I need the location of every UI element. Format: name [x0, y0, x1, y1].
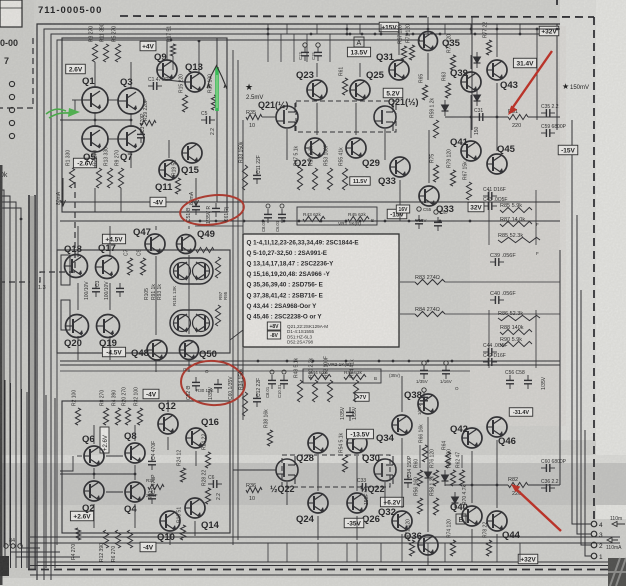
capacitor C35 2.2	[541, 109, 555, 117]
transistor Q31	[389, 60, 409, 80]
wire	[401, 376, 403, 412]
wire	[316, 63, 318, 77]
resistor R57 120	[401, 46, 406, 60]
voltage label +4.5V	[102, 234, 125, 244]
wire	[94, 188, 96, 212]
resistor	[115, 530, 120, 548]
junction	[215, 220, 218, 223]
capacitor C12 22F	[253, 393, 261, 407]
resistor R11 390	[103, 44, 108, 62]
wire	[401, 543, 403, 562]
resistor R74 120	[450, 540, 455, 556]
resistor R85 52.3k	[498, 237, 540, 242]
wire	[30, 536, 620, 538]
JFET Q21(½)	[276, 103, 298, 131]
page border dashed top	[120, 16, 594, 17]
capacitor	[434, 217, 442, 231]
wire	[356, 456, 358, 491]
terminal circle	[9, 120, 14, 125]
junction	[470, 28, 473, 31]
resistor R71 120	[409, 45, 414, 60]
resistor R28 22	[205, 488, 210, 504]
wire	[109, 283, 111, 310]
capacitor	[280, 375, 288, 389]
diode	[474, 90, 481, 106]
diode	[425, 467, 432, 483]
resistor R19 51	[175, 178, 180, 194]
wire	[535, 310, 537, 368]
wire	[401, 438, 403, 508]
junction	[130, 119, 133, 122]
voltage label 16V	[396, 205, 409, 213]
wire	[168, 140, 170, 158]
voltage label 13.5V	[347, 47, 370, 57]
terminal circle	[9, 107, 14, 112]
capacitor	[420, 392, 428, 406]
resistor R79 120	[450, 170, 455, 186]
junction	[345, 360, 348, 363]
capacitor C41 D16F	[483, 192, 497, 200]
resistor R7 270	[96, 168, 101, 188]
wire	[93, 504, 95, 528]
capacitor	[301, 47, 309, 61]
resistor	[103, 530, 108, 548]
wire	[359, 24, 361, 34]
junction	[312, 360, 315, 363]
page border dashed right	[593, 17, 595, 519]
wire	[471, 543, 473, 562]
wire	[22, 547, 41, 549]
wire	[528, 484, 560, 486]
capacitor C5	[201, 116, 215, 124]
wire	[37, 561, 626, 563]
transistor Q50	[180, 341, 199, 360]
corner connector block dark	[608, 558, 626, 586]
junction	[519, 33, 522, 36]
resistor R46 63k	[344, 374, 366, 379]
wire	[286, 24, 288, 34]
transistor Q44	[487, 511, 507, 531]
resistor R50 2.2k	[312, 380, 317, 402]
wire	[166, 40, 168, 60]
junction	[374, 33, 377, 36]
wire	[401, 534, 403, 543]
wire	[93, 425, 95, 444]
wire	[232, 50, 234, 545]
wire	[496, 543, 498, 562]
voltage label -4V	[143, 389, 159, 399]
resistor R82	[508, 482, 528, 487]
wire	[198, 41, 200, 72]
resistor R73 120	[450, 55, 455, 70]
capacitor C40 .056F	[490, 296, 504, 304]
voltage label +8V	[267, 322, 280, 330]
resistor R66 16k	[422, 445, 427, 462]
green arrow vertical	[215, 67, 219, 111]
capacitor	[116, 283, 124, 297]
wire	[94, 112, 96, 127]
wire	[77, 336, 79, 360]
resistor R35	[246, 114, 262, 119]
wire	[95, 119, 131, 121]
wire	[16, 556, 80, 558]
wire	[496, 534, 498, 543]
resistor R77 22	[486, 40, 491, 55]
wire	[577, 215, 591, 534]
wire	[155, 256, 157, 335]
resistor	[196, 247, 214, 252]
wire	[445, 484, 508, 486]
transistor Q24	[308, 493, 328, 513]
voltage label -13.5V	[347, 429, 374, 439]
capacitor C36 2.2	[541, 484, 555, 492]
resistor R33 150k	[242, 165, 247, 190]
resistor R61	[342, 78, 347, 95]
resistor R65	[422, 85, 427, 100]
transistor Q40	[462, 506, 482, 526]
wire	[470, 55, 472, 69]
resistor R78 22	[486, 540, 491, 556]
wire	[30, 574, 626, 576]
resistor R86 52.3k	[498, 315, 540, 320]
bottom dashed border	[28, 569, 626, 571]
capacitor C6	[208, 480, 222, 488]
transistor Q42	[462, 428, 482, 448]
junction	[346, 33, 349, 36]
wire	[30, 565, 626, 567]
junction	[320, 220, 323, 223]
wire	[242, 348, 244, 420]
wire	[445, 281, 560, 283]
resistor R15 220	[182, 95, 187, 112]
transistor Q36	[418, 535, 438, 555]
wire	[93, 468, 95, 479]
voltage label -4.5V	[102, 347, 125, 357]
wire	[316, 24, 318, 34]
matched pair oval upper	[170, 258, 213, 284]
resistor R81	[508, 114, 528, 119]
resistor R90 5.9k	[500, 341, 532, 346]
wire	[4, 380, 6, 568]
resistor R87 14.0k	[500, 221, 532, 226]
red arrow top-right	[508, 51, 552, 115]
transistor Q7	[118, 126, 144, 152]
resistor R45 62k	[348, 216, 369, 221]
resistor R80 120	[450, 470, 455, 486]
junction	[470, 116, 473, 119]
wire	[120, 28, 560, 30]
wire	[317, 456, 319, 491]
block top-left amp	[62, 38, 227, 212]
JFET ½Q22	[374, 456, 396, 484]
resistor R84 274Ω	[415, 311, 445, 316]
junction	[267, 33, 270, 36]
voltage label -35V	[344, 518, 364, 528]
wire	[0, 190, 4, 546]
transistor Q47	[145, 234, 165, 254]
transistor Q15	[182, 143, 202, 163]
capacitor	[346, 407, 354, 421]
resistor R24 22	[205, 452, 210, 468]
wire	[21, 389, 23, 568]
voltage label +32V	[518, 554, 538, 564]
transistor Q2	[84, 481, 104, 501]
transistor Q12	[158, 414, 178, 434]
capacitor C42 D16F	[483, 358, 497, 366]
green arrow chevron	[207, 66, 227, 90]
wire	[262, 116, 276, 118]
wire	[488, 190, 490, 245]
wire	[60, 360, 560, 362]
wire	[120, 188, 122, 212]
wire	[54, 398, 56, 568]
wire	[356, 543, 358, 562]
voltage label -2.6V	[73, 158, 96, 168]
transistor Q49	[177, 235, 196, 254]
resistor C7	[127, 258, 132, 275]
resistor R1 330	[69, 168, 74, 188]
resistor R38 16k	[267, 430, 272, 446]
voltage label +6.2V	[380, 497, 403, 507]
wire	[77, 226, 79, 257]
wire	[461, 455, 463, 468]
resistor R63	[445, 83, 450, 98]
wire	[230, 330, 243, 340]
wire	[167, 437, 169, 450]
voltage label -4V	[140, 542, 156, 552]
JFET Q21(½)	[374, 103, 396, 131]
transistor Q30	[347, 433, 367, 453]
junction	[427, 360, 430, 363]
wire	[188, 226, 190, 229]
+2.6V vertical box	[100, 427, 109, 453]
resistor R8 270	[103, 408, 108, 425]
wire	[267, 34, 269, 62]
junction	[474, 33, 477, 36]
transistor Q14	[185, 498, 205, 518]
voltage label +15V	[379, 22, 399, 32]
resistor R43 62k	[303, 216, 325, 221]
capacitor C1 47OP	[148, 82, 162, 90]
wire	[167, 400, 169, 412]
transistor Q46	[487, 417, 507, 437]
resistor R62 47	[459, 470, 464, 486]
wire	[581, 290, 591, 545]
connector pins	[591, 521, 597, 527]
resistor R9 270	[118, 168, 123, 188]
resistor R59 1.2k	[433, 120, 438, 138]
extra caps near C56	[422, 388, 426, 392]
resistor R83 274Ω	[415, 279, 445, 284]
wire	[26, 392, 28, 568]
transistor Q32	[392, 511, 412, 531]
capacitor C33	[357, 483, 371, 491]
transistor Q11	[159, 160, 179, 180]
transistor Q26	[347, 493, 367, 513]
transistor Q39	[461, 72, 481, 92]
resistor R3 270	[92, 44, 97, 62]
bottom connector dots	[4, 544, 8, 548]
wire	[72, 99, 83, 101]
wire	[398, 24, 400, 55]
transistor	[174, 262, 191, 280]
capacitor C11 22F	[253, 170, 261, 184]
wire	[536, 30, 538, 120]
wire	[355, 103, 357, 135]
wire	[444, 24, 446, 34]
junction	[496, 484, 499, 487]
resistor R54 41k	[353, 380, 358, 402]
wire	[519, 24, 521, 34]
resistor R33 100	[211, 95, 216, 110]
capacitor	[278, 209, 286, 223]
resistor R44 62k	[309, 374, 331, 379]
dashed box left2	[0, 182, 75, 282]
wire	[45, 395, 47, 568]
wire	[94, 473, 135, 475]
wire	[37, 24, 560, 580]
wire	[134, 425, 136, 441]
junction	[427, 28, 430, 31]
capacitor C39 .056F	[490, 258, 504, 266]
junction	[286, 360, 289, 363]
resistor R76 120	[433, 470, 438, 486]
resistor R55 41k	[342, 168, 347, 190]
wire	[94, 151, 96, 168]
label 110m arrows	[612, 522, 625, 527]
transistor Q29	[346, 138, 366, 158]
wire	[194, 521, 196, 536]
wire	[11, 551, 61, 553]
wire	[51, 34, 553, 580]
junction	[262, 220, 265, 223]
wire	[60, 473, 94, 475]
junction	[439, 220, 442, 223]
wire	[15, 386, 17, 568]
resistor R85 5.9k	[500, 207, 532, 212]
resistor R17 51	[170, 44, 175, 56]
voltage label +4V	[140, 41, 156, 51]
voltage label -15V	[558, 145, 578, 155]
resistor R53 100F	[327, 168, 332, 190]
wire	[60, 100, 75, 113]
voltage label -4V	[150, 197, 166, 207]
transistor Q25	[350, 80, 370, 100]
voltage label -7V	[355, 393, 369, 402]
junction	[94, 119, 97, 122]
junction	[451, 360, 454, 363]
voltage label 31.4V	[513, 58, 536, 68]
block bottom-left amp	[62, 401, 230, 533]
junction	[408, 220, 411, 223]
junction	[198, 40, 201, 43]
capacitor	[192, 377, 200, 391]
terminal circle	[9, 133, 14, 138]
voltage label 11.5V	[350, 177, 370, 186]
resistor R52 100F	[327, 380, 332, 402]
transistor Q13	[185, 72, 205, 92]
resistor C9	[140, 258, 145, 275]
transistor	[193, 262, 210, 280]
arrow 80mA b	[194, 178, 199, 206]
capacitor C3	[92, 283, 100, 297]
dashed box left	[0, 38, 33, 108]
wire	[188, 255, 190, 334]
wire	[535, 190, 537, 245]
transistor Q1	[82, 87, 108, 113]
junction	[439, 33, 442, 36]
junction	[267, 28, 270, 31]
transistor Q28	[308, 433, 328, 453]
junction	[298, 220, 301, 223]
junction	[536, 28, 539, 31]
wire	[427, 17, 429, 27]
capacitor C59 6800P	[541, 129, 555, 137]
wire	[519, 543, 521, 562]
resistor	[140, 120, 156, 125]
wire	[427, 53, 429, 80]
voltage label -8V	[267, 331, 280, 339]
junction	[283, 220, 286, 223]
transistor Q35	[419, 32, 438, 51]
junction	[408, 360, 411, 363]
wire	[188, 360, 190, 372]
wire	[10, 383, 12, 568]
resistor R64	[445, 452, 450, 468]
transistor Q43	[487, 60, 507, 80]
wire	[60, 119, 95, 121]
voltage label -31.4V	[509, 408, 532, 417]
wire	[399, 180, 401, 221]
wire	[60, 364, 560, 366]
transistor Q8	[125, 443, 145, 463]
left edge dark line	[0, 165, 3, 585]
wire	[233, 469, 276, 471]
wire	[445, 116, 508, 118]
transistor	[193, 314, 210, 332]
wire	[107, 138, 119, 140]
junction	[225, 220, 228, 223]
capacitor	[524, 375, 532, 389]
wire	[106, 491, 123, 493]
junction	[412, 33, 415, 36]
wire	[346, 543, 348, 562]
wire	[496, 24, 498, 34]
junction	[310, 33, 313, 36]
transistor Q41	[461, 141, 481, 161]
wire	[470, 24, 472, 34]
cap cluster C55 C57	[417, 207, 421, 211]
resistor R13 330	[107, 168, 112, 188]
resistor R48 5.1k	[297, 380, 302, 402]
wire	[317, 516, 319, 540]
red circle annotation upper	[178, 192, 245, 229]
resistor R32 100	[137, 408, 142, 425]
voltage label +2.6V	[70, 511, 93, 521]
wire	[0, 202, 16, 546]
arrow 80mA	[61, 178, 66, 206]
red arrow bottom-right	[511, 484, 561, 531]
junction	[170, 39, 173, 42]
capacitor C2 470P	[148, 490, 156, 504]
junction	[406, 33, 409, 36]
wire through green arrow	[216, 38, 218, 202]
junction	[359, 220, 362, 223]
wire	[286, 129, 288, 160]
junction	[496, 116, 499, 119]
wire	[107, 99, 119, 101]
capacitor	[314, 47, 322, 61]
